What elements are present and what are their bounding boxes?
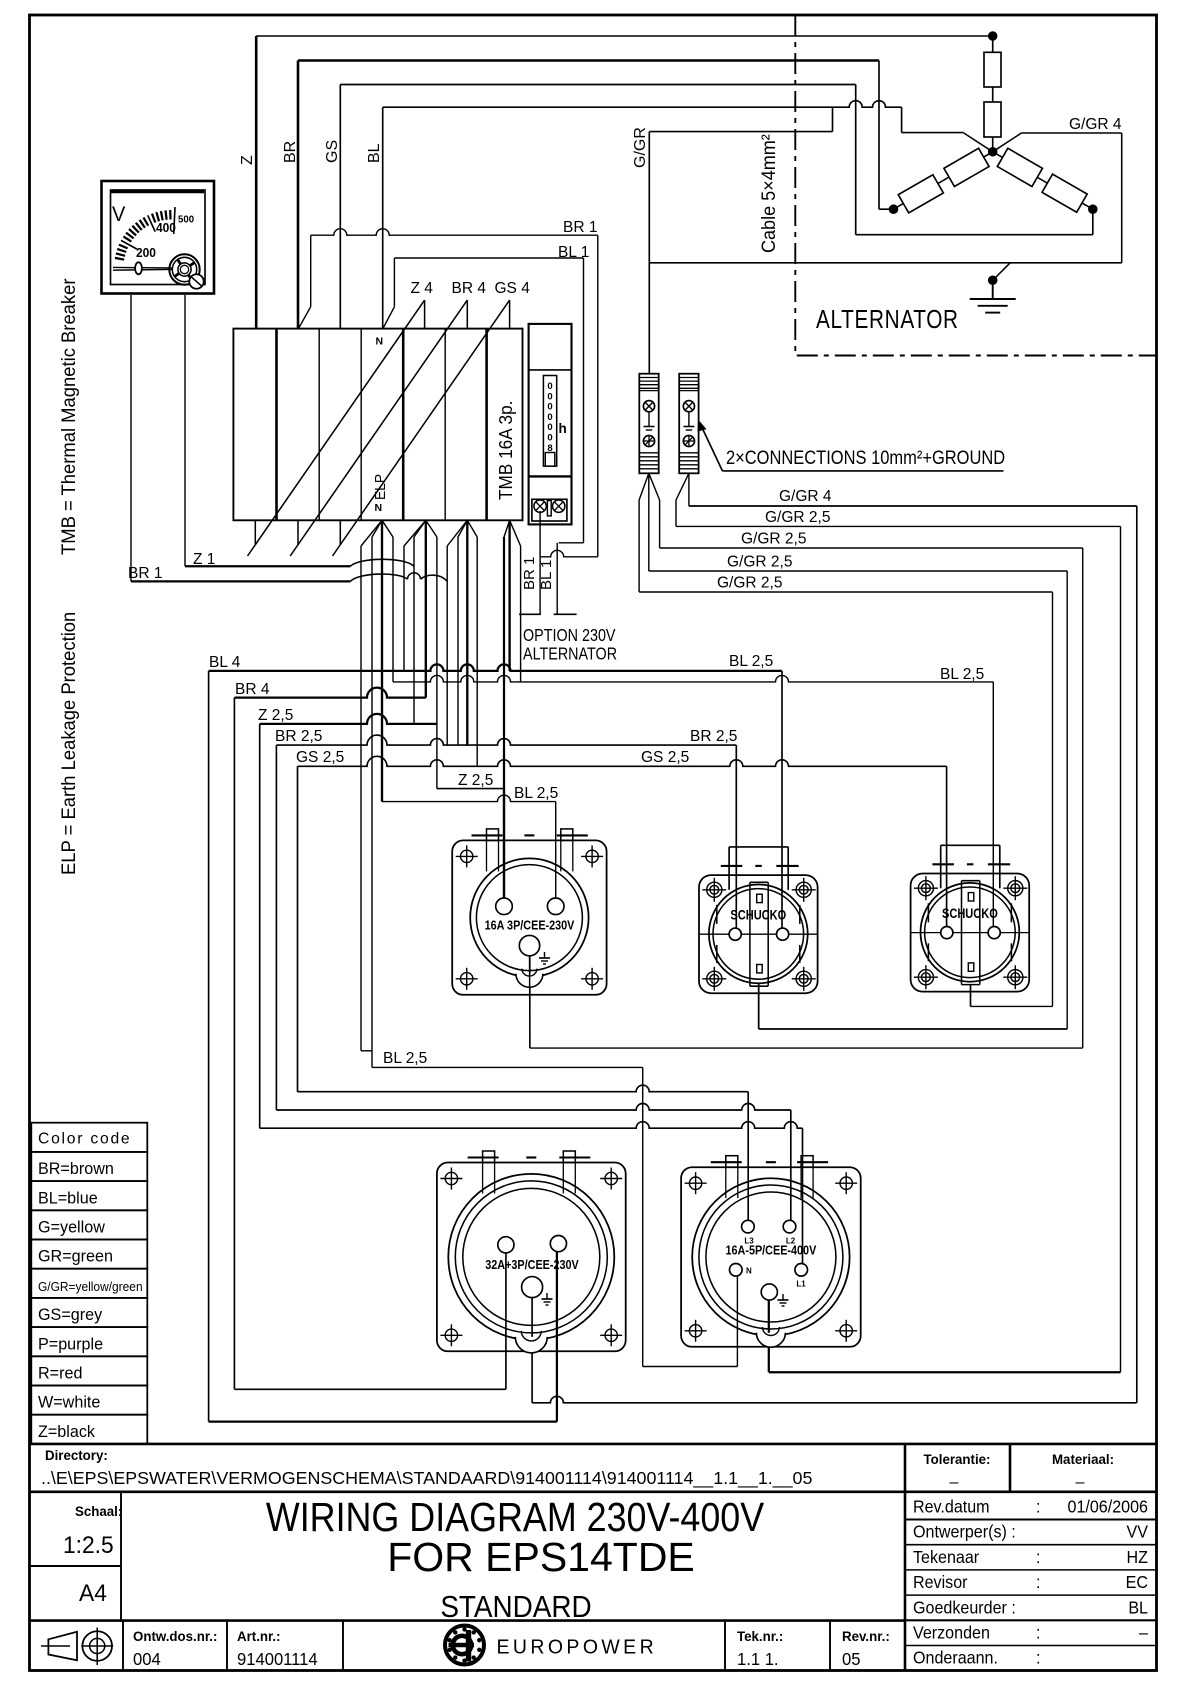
svg-text:G/GR 2,5: G/GR 2,5 bbox=[717, 575, 782, 592]
svg-text:P=purple: P=purple bbox=[38, 1334, 103, 1353]
socket SCHUKO 1 bbox=[699, 847, 818, 993]
svg-text:914001114: 914001114 bbox=[237, 1650, 318, 1669]
wire rail BR4 to 32A left pin bbox=[234, 1388, 506, 1390]
earth mark 32A bbox=[546, 1293, 548, 1299]
wire vertical x=436.9 bbox=[436, 537, 438, 789]
socket 16A 3P/CEE-230V bbox=[452, 829, 606, 995]
winding axis right bbox=[993, 152, 1093, 209]
wire vertical x=509.6 bbox=[508, 520, 510, 671]
wire rail BR to L2 bbox=[276, 1104, 790, 1110]
wire rail BL4 to 32A right pin bbox=[209, 1420, 557, 1422]
svg-text:1.1 1.: 1.1 1. bbox=[737, 1650, 779, 1669]
wire BR 1 row with arcs over bundle bbox=[131, 580, 350, 582]
wire SCHUKO1 earth down bbox=[758, 986, 760, 1029]
svg-text:GS 4: GS 4 bbox=[495, 280, 531, 297]
svg-text:Rev.nr.:: Rev.nr.: bbox=[842, 1629, 890, 1644]
svg-text:BL 2,5: BL 2,5 bbox=[383, 1050, 427, 1067]
svg-text:BR 2,5: BR 2,5 bbox=[690, 728, 737, 745]
svg-text:BR 4: BR 4 bbox=[452, 280, 487, 297]
svg-text:Ontwerper(s) :: Ontwerper(s) : bbox=[913, 1522, 1016, 1542]
hour counter h-meter bbox=[529, 324, 572, 525]
svg-text:GR=green: GR=green bbox=[38, 1246, 113, 1265]
node top (Z) bbox=[989, 32, 997, 40]
wire Z into CEE left pin bbox=[503, 789, 505, 898]
svg-text:Z: Z bbox=[239, 155, 256, 165]
svg-text:BR=brown: BR=brown bbox=[38, 1159, 114, 1178]
wire BL 2,5 to bottom (N feed) bbox=[372, 1066, 643, 1068]
node ground bbox=[989, 276, 997, 284]
svg-text:BL: BL bbox=[1128, 1598, 1148, 1618]
svg-text:A4: A4 bbox=[79, 1579, 107, 1606]
svg-text:BL 1: BL 1 bbox=[538, 560, 555, 590]
node star point bbox=[989, 148, 997, 156]
svg-text:–: – bbox=[1076, 1474, 1085, 1491]
wire G/GR 2,5 row2 bbox=[676, 525, 1121, 527]
svg-text:01/06/2006: 01/06/2006 bbox=[1067, 1497, 1148, 1517]
svg-text:VV: VV bbox=[1127, 1522, 1149, 1542]
breaker lever diagonal 2 (BR pole) bbox=[297, 520, 299, 545]
wire vertical x=361 bbox=[360, 546, 362, 1051]
wire Z 1 row with arc over bundle bbox=[185, 565, 350, 567]
svg-text:2×CONNECTIONS 10mm²+GROUND: 2×CONNECTIONS 10mm²+GROUND bbox=[726, 447, 1005, 469]
svg-text:BL 2,5: BL 2,5 bbox=[514, 785, 558, 802]
svg-text:G=yellow: G=yellow bbox=[38, 1217, 106, 1236]
svg-text:ALTERNATOR: ALTERNATOR bbox=[523, 645, 617, 664]
hour counter drop wires to option stubs bbox=[539, 511, 541, 614]
svg-text:Revisor: Revisor bbox=[913, 1572, 968, 1592]
wire vertical x=393 bbox=[392, 537, 394, 682]
svg-text:BL 2,5: BL 2,5 bbox=[940, 666, 984, 683]
svg-text::: : bbox=[1036, 1648, 1040, 1668]
svg-text:GS 2,5: GS 2,5 bbox=[296, 749, 344, 766]
breaker lever diagonal 1 (Z pole) bbox=[254, 520, 256, 545]
svg-text:G/GR 2,5: G/GR 2,5 bbox=[765, 509, 830, 526]
svg-text:200: 200 bbox=[136, 246, 156, 261]
star diagonals to BL wire bbox=[964, 133, 993, 152]
svg-text:L2: L2 bbox=[786, 1237, 796, 1246]
svg-text:Rev.datum: Rev.datum bbox=[913, 1497, 990, 1517]
svg-text::: : bbox=[1036, 1497, 1040, 1517]
svg-text:..\E\EPS\EPSWATER\VERMOGENSCHE: ..\E\EPS\EPSWATER\VERMOGENSCHEMA\STANDAA… bbox=[41, 1468, 813, 1489]
svg-text:N: N bbox=[376, 336, 384, 348]
svg-text:STANDARD: STANDARD bbox=[440, 1590, 591, 1625]
wire G/GR 2,5 row4 (to SCHUKO1 earth) bbox=[649, 570, 1067, 572]
fan at pin x=467.3 bbox=[447, 520, 467, 546]
svg-text:R=red: R=red bbox=[38, 1363, 82, 1382]
terminal block X1 bbox=[639, 374, 658, 474]
winding W1 bbox=[898, 175, 943, 213]
svg-text:Z 2,5: Z 2,5 bbox=[258, 707, 293, 724]
winding W4 bbox=[1042, 174, 1087, 212]
wire 32A earth to G/GR4 bbox=[531, 1298, 533, 1403]
svg-text:BR 4: BR 4 bbox=[235, 681, 270, 698]
socket 32A+3P/CEE-230V bbox=[437, 1151, 626, 1353]
svg-text:400: 400 bbox=[156, 221, 176, 236]
alternator dash-dot boundary (left+bottom) bbox=[795, 15, 1156, 356]
wire rail GS to L3 bbox=[298, 1085, 749, 1092]
svg-text::: : bbox=[1036, 1623, 1040, 1643]
winding W3 bbox=[997, 148, 1042, 186]
wire vertical x=477.2 bbox=[476, 537, 478, 766]
wire GS : TMB top to right winding bbox=[339, 85, 341, 329]
svg-text:BL: BL bbox=[366, 143, 383, 163]
wire vertical x=382 bbox=[381, 520, 383, 801]
svg-text:G/GR 4: G/GR 4 bbox=[779, 488, 832, 505]
wire BL : TMB top to star point bbox=[382, 107, 384, 328]
svg-text:EC: EC bbox=[1126, 1572, 1148, 1592]
wire row BR 4 bbox=[233, 698, 235, 1390]
svg-text:Tolerantie:: Tolerantie: bbox=[924, 1452, 991, 1467]
ground symbol bbox=[992, 280, 994, 299]
svg-text:Schaal:: Schaal: bbox=[75, 1504, 122, 1519]
svg-text:Verzonden: Verzonden bbox=[913, 1623, 990, 1643]
projection symbol bbox=[41, 1628, 113, 1665]
wire vertical x=425.8 bbox=[425, 520, 427, 697]
svg-text:V: V bbox=[112, 203, 126, 227]
svg-text:–: – bbox=[950, 1474, 959, 1491]
terminal block X2 bbox=[679, 374, 698, 474]
fan at pin x=382.0 bbox=[361, 520, 382, 546]
wire SCHUKO2 earth down bbox=[970, 985, 972, 1007]
title block frame bbox=[30, 1444, 1157, 1671]
wire BR 1 from voltmeter bbox=[130, 295, 132, 581]
wire vertical x=404 bbox=[403, 546, 405, 671]
svg-text:TMB 16A 3p.: TMB 16A 3p. bbox=[495, 401, 516, 500]
svg-text:G/GR 4: G/GR 4 bbox=[1069, 116, 1122, 133]
EUROPOWER logo bbox=[445, 1626, 657, 1665]
wire vertical x=414 bbox=[413, 537, 415, 724]
svg-text:HZ: HZ bbox=[1127, 1547, 1148, 1567]
wire G/GR 2,5 row3 (to CEE earth) bbox=[660, 547, 1083, 549]
earth mark 16A-5P bbox=[782, 1294, 784, 1300]
wire BR : TMB top to left winding bbox=[297, 61, 300, 329]
svg-text:Goedkeurder :: Goedkeurder : bbox=[913, 1598, 1016, 1618]
ground diagonal to G/GR row bbox=[993, 263, 1011, 281]
svg-text:ELP = Earth Leakage Protection: ELP = Earth Leakage Protection bbox=[58, 612, 79, 875]
svg-text:05: 05 bbox=[842, 1650, 860, 1669]
svg-text:G/GR 2,5: G/GR 2,5 bbox=[741, 531, 806, 548]
svg-text:Directory:: Directory: bbox=[45, 1448, 108, 1463]
wire BL/GGR right of star to right column bbox=[1021, 132, 1121, 134]
color code table bbox=[31, 1123, 147, 1444]
winding axis left bbox=[894, 152, 993, 209]
svg-text:OPTION 230V: OPTION 230V bbox=[523, 627, 616, 646]
svg-text:Ontw.dos.nr.:: Ontw.dos.nr.: bbox=[133, 1629, 217, 1644]
svg-text:Materiaal:: Materiaal: bbox=[1052, 1452, 1114, 1467]
breaker lever diagonal 3 (GS pole) bbox=[339, 520, 341, 545]
wire row BL 4 bbox=[208, 671, 210, 1422]
svg-text:004: 004 bbox=[133, 1650, 161, 1669]
svg-text:GS: GS bbox=[324, 140, 341, 163]
wire vertical x=467.3 bbox=[466, 520, 468, 745]
svg-text:G/GR: G/GR bbox=[632, 127, 649, 168]
svg-text:16A 3P/CEE-230V: 16A 3P/CEE-230V bbox=[485, 917, 575, 932]
earth mark cee230 bbox=[544, 952, 546, 958]
jog 361 to 372 bbox=[361, 1050, 372, 1052]
svg-text:TMB = Thermal Magnetic Breaker: TMB = Thermal Magnetic Breaker bbox=[58, 278, 79, 555]
wire BL 1 : TMB N pole to hour counter bbox=[393, 258, 395, 307]
svg-text::: : bbox=[1036, 1547, 1040, 1567]
breaker block TMB/ELP outline bbox=[233, 329, 522, 521]
svg-text:16A-5P/CEE-400V: 16A-5P/CEE-400V bbox=[726, 1242, 817, 1257]
svg-text:BR: BR bbox=[282, 141, 299, 163]
svg-text:BL=blue: BL=blue bbox=[38, 1188, 98, 1207]
svg-text:1:2.5: 1:2.5 bbox=[63, 1531, 114, 1558]
wire Z 2,5 branch to CEE socket bbox=[437, 788, 504, 790]
wire G/GR 4 row bbox=[689, 505, 1137, 507]
wire vertical x=458 bbox=[457, 537, 459, 745]
alternator vertical resistor R2 bbox=[984, 102, 1001, 137]
wire Z 1 from voltmeter bbox=[184, 295, 186, 566]
wire row BR 2,5 bbox=[275, 745, 277, 1110]
fan at pin x=425.8 bbox=[404, 520, 426, 546]
wire 16A-5P earth to G/GR row2 bbox=[768, 1300, 770, 1372]
wire BL 2,5 branch to CEE socket bbox=[382, 795, 556, 802]
wire Z : TMB top to alternator bbox=[255, 36, 258, 329]
svg-text:Cable 5×4mm²: Cable 5×4mm² bbox=[758, 134, 780, 253]
svg-text:Onderaann.: Onderaann. bbox=[913, 1648, 998, 1668]
wire G/GR 2,5 row5 (to SCHUKO2 earth) bbox=[639, 591, 1052, 593]
wire resistor chain vertical bbox=[992, 36, 994, 52]
svg-text:h: h bbox=[559, 421, 567, 436]
svg-text:Z=black: Z=black bbox=[38, 1422, 96, 1441]
option stub bars bbox=[519, 613, 541, 615]
wire row BL 2,5 to SCHUKO2 bbox=[393, 675, 993, 682]
svg-text:Color code: Color code bbox=[38, 1130, 131, 1147]
svg-text:GS 2,5: GS 2,5 bbox=[641, 749, 689, 766]
svg-text:G/GR=yellow/green: G/GR=yellow/green bbox=[38, 1280, 143, 1294]
wire vertical x=372 bbox=[371, 537, 373, 1067]
svg-text:EUROPOWER: EUROPOWER bbox=[497, 1636, 658, 1659]
wire G/GR row from ground to terminal block column bbox=[649, 262, 1121, 264]
svg-text:BL 2,5: BL 2,5 bbox=[729, 653, 773, 670]
wire row GS 2,5 bbox=[297, 766, 299, 1091]
svg-text:N: N bbox=[746, 1267, 752, 1276]
svg-text:32A+3P/CEE-230V: 32A+3P/CEE-230V bbox=[485, 1257, 579, 1272]
label 2xCONNECTIONS 10mm2+GROUND with leader arrow bbox=[698, 420, 1006, 471]
node right winding end bbox=[1089, 205, 1097, 213]
wire vertical x=520.6 bbox=[520, 546, 522, 682]
svg-text::: : bbox=[1036, 1572, 1040, 1592]
svg-text:BR 1: BR 1 bbox=[521, 557, 538, 590]
svg-text:L1: L1 bbox=[796, 1280, 806, 1289]
voltmeter V (analog meter) bbox=[102, 181, 215, 294]
svg-text:L3: L3 bbox=[744, 1237, 754, 1246]
svg-text:Tek.nr.:: Tek.nr.: bbox=[737, 1629, 783, 1644]
svg-text:ALTERNATOR: ALTERNATOR bbox=[816, 305, 959, 334]
svg-text:–: – bbox=[1139, 1623, 1149, 1643]
svg-text:BR 1: BR 1 bbox=[128, 565, 162, 582]
svg-text:FOR EPS14TDE: FOR EPS14TDE bbox=[387, 1534, 695, 1580]
svg-text:500: 500 bbox=[178, 214, 194, 225]
svg-text:G/GR 2,5: G/GR 2,5 bbox=[727, 554, 792, 571]
svg-text:Z 2,5: Z 2,5 bbox=[458, 772, 493, 789]
wire rail Z to L1 bbox=[260, 1122, 803, 1129]
wire vertical x=504 bbox=[503, 537, 505, 898]
wire row Z 2,5 bbox=[259, 724, 261, 1128]
svg-text:Art.nr.:: Art.nr.: bbox=[237, 1629, 281, 1644]
wire vertical x=447.2 bbox=[446, 546, 448, 745]
node left winding end bbox=[889, 205, 897, 213]
fan at pin x=509.6 bbox=[504, 520, 510, 537]
wire G/GR : down to terminal block X1 bbox=[648, 132, 650, 374]
svg-text:BR 2,5: BR 2,5 bbox=[275, 728, 322, 745]
svg-text:SCHUCKO: SCHUCKO bbox=[730, 907, 786, 922]
svg-text:N: N bbox=[375, 502, 383, 514]
svg-text:BR 1: BR 1 bbox=[563, 219, 597, 236]
svg-text:BL 4: BL 4 bbox=[209, 654, 241, 671]
svg-text:SCHUCKO: SCHUCKO bbox=[942, 906, 998, 921]
winding W2 bbox=[944, 148, 989, 186]
svg-text:Tekenaar: Tekenaar bbox=[913, 1547, 980, 1567]
socket 16A-5P/CEE-400V bbox=[681, 1156, 861, 1348]
terminal block bottom fans bbox=[639, 473, 649, 500]
wire CEE earth down bbox=[529, 956, 531, 1048]
svg-text:Z 4: Z 4 bbox=[411, 280, 434, 297]
alternator vertical resistor R1 bbox=[984, 52, 1001, 87]
svg-text:GS=grey: GS=grey bbox=[38, 1305, 103, 1324]
breaker cell dividers bbox=[275, 329, 278, 521]
wire BR 1 : TMB BR pole to hour counter bbox=[310, 235, 312, 307]
svg-text:W=white: W=white bbox=[38, 1392, 100, 1411]
socket SCHUKO 2 bbox=[911, 845, 1030, 991]
